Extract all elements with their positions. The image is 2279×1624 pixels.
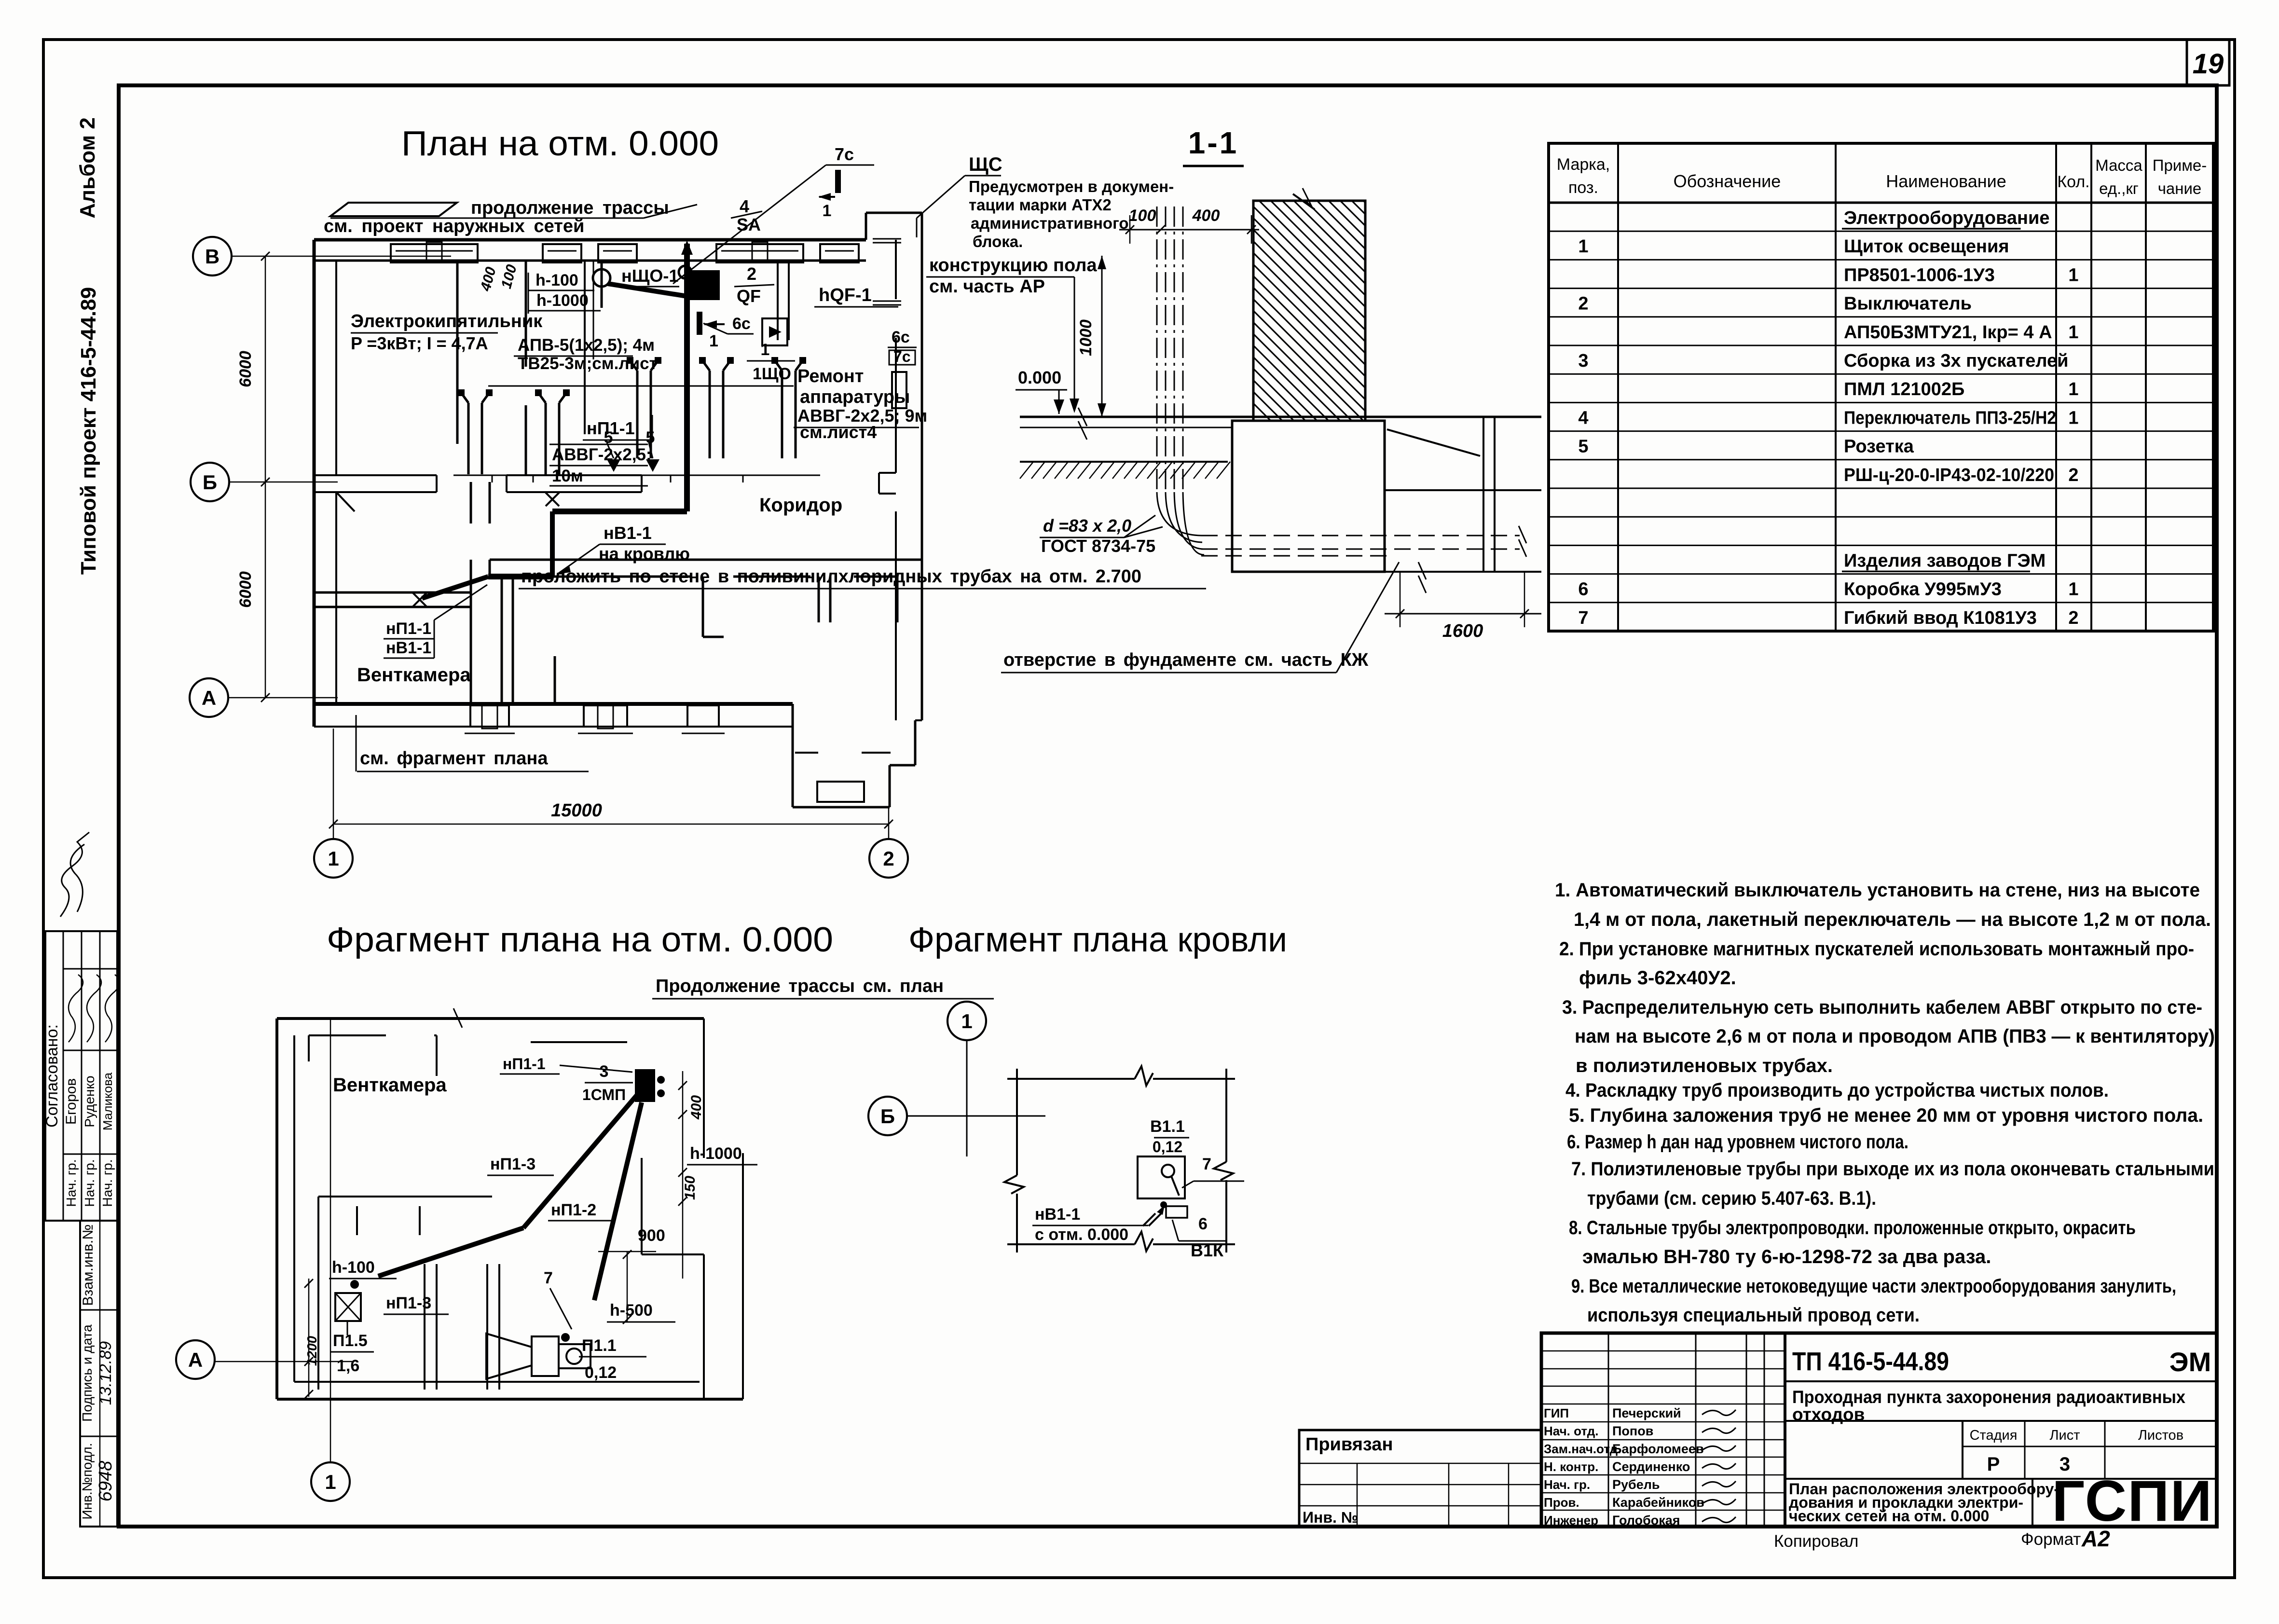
svg-text:2: 2 [747, 264, 756, 284]
svg-text:h-500: h-500 [610, 1301, 653, 1320]
svg-text:см. часть АР: см. часть АР [929, 276, 1045, 297]
svg-text:1: 1 [2068, 408, 2078, 428]
svg-text:400: 400 [688, 1095, 704, 1120]
svg-text:Гибкий ввод К1081У3: Гибкий ввод К1081У3 [1844, 608, 2037, 628]
svg-text:1: 1 [328, 847, 339, 870]
svg-text:с отм. 0.000: с отм. 0.000 [1035, 1225, 1128, 1244]
svg-text:1: 1 [823, 202, 832, 220]
svg-text:2: 2 [1578, 294, 1588, 314]
svg-text:1СМП: 1СМП [582, 1086, 626, 1103]
svg-text:В: В [205, 245, 220, 268]
svg-text:P =3кВт; I = 4,7А: P =3кВт; I = 4,7А [351, 333, 488, 353]
svg-text:Рубель: Рубель [1612, 1477, 1660, 1492]
svg-text:Венткамера: Венткамера [333, 1074, 447, 1096]
svg-text:Привязан: Привязан [1305, 1434, 1393, 1455]
svg-text:используя специальный провод с: используя специальный провод сети. [1587, 1305, 1920, 1326]
svg-text:Розетка: Розетка [1844, 437, 1914, 457]
svg-text:6: 6 [1578, 579, 1588, 600]
svg-text:Руденко: Руденко [82, 1075, 97, 1127]
svg-text:ТП 416-5-44.89: ТП 416-5-44.89 [1792, 1347, 1949, 1376]
svg-text:3: 3 [1578, 351, 1588, 371]
svg-text:Проходная пункта захоронения: Проходная пункта захоронения радиоактивн… [1792, 1387, 2185, 1407]
svg-text:План на отм. 0.000: План на отм. 0.000 [401, 124, 719, 163]
svg-text:Зам.нач.отд.: Зам.нач.отд. [1544, 1442, 1621, 1456]
svg-text:3. Распределительную сеть выпо: 3. Распределительную сеть выполнить кабе… [1562, 997, 2202, 1018]
svg-text:1,4 м от пола, лакетный перекл: 1,4 м от пола, лакетный переключатель — … [1574, 909, 2211, 930]
svg-text:административного: административного [971, 214, 1129, 232]
svg-text:Сборка из 3х пускателей: Сборка из 3х пускателей [1844, 351, 2068, 371]
svg-text:Изделия заводов ГЭМ: Изделия заводов ГЭМ [1844, 551, 2046, 571]
svg-text:АП50Б3МТУ21, Iкр= 4 А: АП50Б3МТУ21, Iкр= 4 А [1844, 322, 2052, 343]
svg-text:нВ1-1: нВ1-1 [604, 523, 652, 543]
svg-text:в полиэтиленовых трубах.: в полиэтиленовых трубах. [1576, 1055, 1833, 1076]
svg-text:Нач. гр.: Нач. гр. [64, 1159, 79, 1207]
svg-text:Венткамера: Венткамера [357, 664, 471, 686]
svg-text:1. Автоматический выключатель: 1. Автоматический выключатель установить… [1555, 880, 2200, 901]
svg-text:7с: 7с [893, 348, 911, 365]
svg-text:Н. контр.: Н. контр. [1544, 1459, 1598, 1474]
svg-text:1: 1 [761, 341, 770, 359]
svg-text:ГОСТ 8734-75: ГОСТ 8734-75 [1041, 536, 1155, 556]
svg-text:3: 3 [600, 1062, 609, 1081]
svg-text:Приме-: Приме- [2153, 156, 2207, 174]
svg-text:6000: 6000 [236, 571, 255, 608]
svg-text:А: А [188, 1349, 203, 1371]
svg-text:ЩС: ЩС [969, 154, 1002, 175]
svg-text:Инв.№подл.: Инв.№подл. [80, 1443, 95, 1520]
svg-text:5: 5 [1578, 437, 1588, 457]
svg-text:Инженер: Инженер [1544, 1513, 1598, 1528]
svg-text:Попов: Попов [1612, 1424, 1653, 1438]
svg-text:Щиток освещения: Щиток освещения [1844, 236, 2009, 257]
svg-text:1: 1 [2068, 322, 2078, 343]
svg-text:нЩО-1: нЩО-1 [621, 266, 678, 286]
svg-text:см.лист4: см.лист4 [800, 422, 877, 442]
svg-text:нП1-1: нП1-1 [386, 619, 431, 638]
svg-text:нП1-1: нП1-1 [503, 1055, 546, 1073]
svg-text:А: А [202, 687, 216, 709]
svg-text:ТВ25-3м;см.лист: ТВ25-3м;см.лист [518, 354, 658, 373]
svg-text:АПВ-5(1x2,5); 4м: АПВ-5(1x2,5); 4м [518, 336, 655, 355]
svg-text:1: 1 [1578, 236, 1588, 257]
svg-text:Согласовано:: Согласовано: [43, 1024, 61, 1128]
svg-text:трубами (см. серию 5.407-63. В: трубами (см. серию 5.407-63. В.1). [1587, 1188, 1876, 1209]
svg-text:15000: 15000 [551, 800, 602, 821]
svg-text:h-1000: h-1000 [690, 1144, 742, 1163]
svg-text:отходов: отходов [1792, 1404, 1865, 1424]
svg-text:ед.,кг: ед.,кг [2099, 179, 2139, 197]
svg-text:Б: Б [203, 471, 217, 494]
svg-text:аппаратуры: аппаратуры [800, 387, 910, 407]
svg-text:Нач. отд.: Нач. отд. [1544, 1424, 1598, 1438]
svg-text:Ремонт: Ремонт [797, 366, 864, 386]
svg-text:Лист: Лист [2049, 1428, 2080, 1443]
svg-text:1: 1 [325, 1471, 336, 1493]
svg-text:Коридор: Коридор [759, 495, 842, 516]
svg-text:7: 7 [1578, 608, 1588, 628]
svg-text:Кол.: Кол. [2057, 173, 2089, 191]
svg-text:1,6: 1,6 [337, 1357, 359, 1375]
svg-text:АВВГ-2x2,5;: АВВГ-2x2,5; [552, 445, 652, 464]
svg-text:Переключатель ПП3-25/Н2: Переключатель ПП3-25/Н2 [1844, 408, 2056, 428]
svg-text:нП1-2: нП1-2 [551, 1201, 596, 1219]
svg-text:Инв. №: Инв. № [1303, 1509, 1358, 1526]
svg-text:нам на высоте 2,6 м от пола и: нам на высоте 2,6 м от пола и проводом А… [1575, 1026, 2215, 1047]
svg-text:hQF-1: hQF-1 [819, 285, 872, 305]
svg-text:6000: 6000 [236, 351, 255, 387]
svg-text:Выключатель: Выключатель [1844, 294, 1972, 314]
svg-text:Р: Р [1987, 1454, 2000, 1475]
svg-text:поз.: поз. [1568, 179, 1598, 197]
svg-text:2: 2 [883, 847, 894, 870]
svg-text:d =83 x 2,0: d =83 x 2,0 [1043, 516, 1131, 536]
svg-text:1: 1 [2068, 265, 2078, 285]
svg-text:1: 1 [2068, 379, 2078, 399]
svg-text:6: 6 [1198, 1215, 1208, 1233]
svg-text:Формат: Формат [2021, 1530, 2081, 1549]
svg-text:1000: 1000 [1077, 319, 1095, 356]
svg-text:6с: 6с [892, 328, 910, 346]
svg-text:Сердиненко: Сердиненко [1612, 1459, 1690, 1474]
svg-text:продолжение трассы: продолжение трассы [471, 198, 669, 218]
svg-text:П1.5: П1.5 [333, 1332, 368, 1350]
svg-text:h-100: h-100 [332, 1258, 375, 1277]
svg-text:Стадия: Стадия [1970, 1428, 2018, 1443]
svg-text:Пров.: Пров. [1544, 1495, 1579, 1510]
svg-text:Предусмотрен в докумен-: Предусмотрен в докумен- [969, 178, 1174, 195]
svg-text:1: 1 [2068, 579, 2078, 600]
svg-text:0,12: 0,12 [1153, 1138, 1182, 1156]
svg-text:2: 2 [2068, 608, 2078, 628]
svg-text:отверстие в фундаменте см.: отверстие в фундаменте см. часть КЖ [1003, 650, 1369, 670]
svg-text:Маликова: Маликова [100, 1072, 115, 1130]
svg-text:1ЩО: 1ЩО [753, 365, 791, 383]
svg-text:нП1-3: нП1-3 [490, 1155, 535, 1173]
svg-text:Подпись и дата: Подпись и дата [80, 1324, 95, 1422]
svg-text:нП1-3: нП1-3 [386, 1294, 431, 1312]
svg-text:0.000: 0.000 [1018, 368, 1061, 387]
svg-text:на кровлю: на кровлю [599, 544, 690, 564]
svg-text:19: 19 [2193, 48, 2224, 80]
svg-text:1600: 1600 [1442, 621, 1483, 641]
svg-text:конструкцию пола: конструкцию пола [929, 255, 1097, 275]
svg-text:6. Размер h дан над уровнем чи: 6. Размер h дан над уровнем чистого пола… [1567, 1131, 1908, 1153]
svg-text:блока.: блока. [973, 233, 1023, 250]
svg-text:Коробка У995мУ3: Коробка У995мУ3 [1844, 579, 2002, 600]
svg-text:проложить по стене в полив: проложить по стене в поливинилхлоридных … [521, 566, 1141, 587]
svg-text:Карабейников: Карабейников [1612, 1495, 1704, 1510]
svg-text:7с: 7с [835, 144, 854, 164]
svg-text:1: 1 [961, 1010, 972, 1032]
svg-text:тации марки АТХ2: тации марки АТХ2 [969, 196, 1112, 214]
svg-text:Егоров: Егоров [63, 1078, 79, 1125]
svg-text:7. Полиэтиленовые трубы при вы: 7. Полиэтиленовые трубы при выходе их из… [1571, 1158, 2214, 1180]
svg-text:2. При установке магнитных пус: 2. При установке магнитных пускателей ис… [1559, 938, 2194, 960]
svg-text:ПР8501-1006-1У3: ПР8501-1006-1У3 [1844, 265, 1995, 285]
svg-text:13.12.89: 13.12.89 [96, 1341, 115, 1405]
svg-text:10м: 10м [552, 467, 583, 485]
svg-text:Фрагмент плана кровли: Фрагмент плана кровли [908, 921, 1287, 959]
svg-text:Нач. гр.: Нач. гр. [1544, 1477, 1590, 1492]
svg-text:см. проект наружных сетей: см. проект наружных сетей [324, 216, 584, 236]
svg-text:Голобокая: Голобокая [1612, 1513, 1680, 1528]
svg-text:Масса: Масса [2095, 156, 2142, 174]
svg-text:4. Раскладку труб производить: 4. Раскладку труб производить до устройс… [1565, 1080, 2109, 1101]
svg-text:4: 4 [740, 196, 749, 216]
svg-text:Нач. гр.: Нач. гр. [100, 1159, 115, 1207]
svg-text:8. Стальные трубы электропрово: 8. Стальные трубы электропроводки. проло… [1569, 1217, 2136, 1239]
svg-text:6948: 6948 [96, 1461, 116, 1502]
svg-text:Электрокипятильник: Электрокипятильник [351, 311, 543, 331]
svg-text:Листов: Листов [2138, 1428, 2183, 1443]
svg-text:0,12: 0,12 [585, 1363, 617, 1382]
svg-text:Марка,: Марка, [1557, 155, 1610, 174]
svg-text:5. Глубина заложения труб не м: 5. Глубина заложения труб не менее 20 мм… [1569, 1105, 2203, 1126]
svg-text:нВ1-1: нВ1-1 [1035, 1205, 1080, 1224]
svg-text:филь 3-62х40У2.: филь 3-62х40У2. [1579, 967, 1736, 989]
svg-text:Фрагмент плана на отм. 0.000: Фрагмент плана на отм. 0.000 [327, 921, 833, 959]
svg-text:А2: А2 [2081, 1526, 2110, 1551]
svg-text:400: 400 [1192, 206, 1220, 225]
svg-text:Взам.инв.№: Взам.инв.№ [80, 1224, 96, 1306]
svg-text:9. Все металлические нетоковед: 9. Все металлические нетоковедущие части… [1571, 1276, 2176, 1297]
svg-text:h-100: h-100 [535, 271, 578, 289]
svg-text:чание: чание [2158, 179, 2202, 197]
svg-text:В1К: В1К [1191, 1240, 1224, 1260]
svg-text:ЭМ: ЭМ [2169, 1347, 2211, 1377]
svg-text:Б: Б [880, 1105, 895, 1128]
svg-text:ГСПИ: ГСПИ [2052, 1469, 2213, 1533]
svg-text:QF: QF [737, 286, 761, 306]
svg-text:Наименование: Наименование [1886, 171, 2006, 191]
svg-text:нП1-1: нП1-1 [587, 418, 635, 438]
svg-text:1-1: 1-1 [1188, 125, 1239, 160]
svg-text:Нач. гр.: Нач. гр. [82, 1159, 97, 1207]
svg-text:эмалью ВН-780 ту 6-ю-1298-72 з: эмалью ВН-780 ту 6-ю-1298-72 за два раза… [1582, 1246, 1991, 1267]
svg-text:4: 4 [1578, 408, 1588, 428]
svg-text:900: 900 [638, 1226, 665, 1245]
svg-text:ческих сетей на отм. 0.000: ческих сетей на отм. 0.000 [1789, 1507, 1989, 1525]
svg-text:В1.1: В1.1 [1150, 1117, 1185, 1136]
svg-text:Продолжение трассы см. план: Продолжение трассы см. план [656, 976, 944, 996]
svg-text:Барфоломеев: Барфоломеев [1612, 1442, 1704, 1456]
svg-text:см. фрагмент плана: см. фрагмент плана [360, 748, 548, 769]
svg-text:Типовой проект 416-5-44.89: Типовой проект 416-5-44.89 [77, 287, 100, 575]
svg-text:h-1000: h-1000 [536, 291, 589, 310]
svg-text:ГИП: ГИП [1544, 1406, 1569, 1420]
svg-text:Копировал: Копировал [1774, 1532, 1858, 1551]
svg-text:Альбом 2: Альбом 2 [76, 117, 99, 219]
svg-text:ПМЛ 121002Б: ПМЛ 121002Б [1844, 379, 1964, 399]
svg-text:РШ-ц-20-0-IP43-02-10/220: РШ-ц-20-0-IP43-02-10/220 [1844, 465, 2054, 485]
svg-text:П1.1: П1.1 [582, 1336, 617, 1355]
svg-text:100: 100 [1129, 206, 1156, 225]
svg-text:Печерский: Печерский [1612, 1406, 1681, 1420]
svg-text:150: 150 [682, 1176, 698, 1200]
svg-text:7: 7 [544, 1269, 553, 1287]
svg-text:Электрооборудование: Электрооборудование [1844, 208, 2049, 228]
svg-text:6с: 6с [732, 315, 751, 333]
svg-text:2: 2 [2068, 465, 2078, 485]
svg-text:нВ1-1: нВ1-1 [386, 639, 431, 657]
svg-text:1: 1 [709, 332, 718, 350]
svg-text:7: 7 [1202, 1155, 1211, 1173]
svg-text:Обозначение: Обозначение [1674, 171, 1781, 191]
